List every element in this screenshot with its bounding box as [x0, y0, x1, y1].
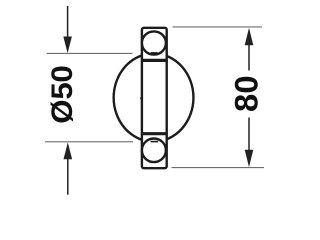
arrowhead 80 top (points up) [245, 28, 254, 45]
dimension extension line ø50 bottom [45, 141, 133, 143]
dimension extension line 80 bottom [172, 167, 265, 169]
arrowhead ø50 bottom (points up) [64, 142, 73, 159]
dimension leader line ø50 top [67, 6, 69, 38]
dimension line 80 lower segment [248, 118, 250, 151]
bottom knob circle [142, 139, 166, 163]
dimension line 80 upper segment [248, 45, 250, 71]
dimension extension line 80 top [173, 26, 263, 28]
dimension leader line ø50 bottom [67, 159, 69, 195]
svg-text:80: 80 [228, 75, 265, 112]
upper separator band [141, 59, 168, 62]
arrowhead 80 bottom (points down) [245, 150, 254, 167]
lower separator band [141, 132, 168, 135]
center tick on left wall [140, 97, 142, 99]
bottom knob inner dash [151, 141, 158, 143]
arrowhead ø50 top (points down) [63, 37, 72, 54]
hook body rectangle [142, 28, 167, 168]
rosette ellipse ø50 [114, 54, 194, 142]
top knob circle [142, 31, 166, 54]
svg-text:Ø50: Ø50 [46, 65, 79, 123]
top knob inner dash [151, 52, 158, 54]
dimension extension line ø50 top [47, 52, 133, 54]
